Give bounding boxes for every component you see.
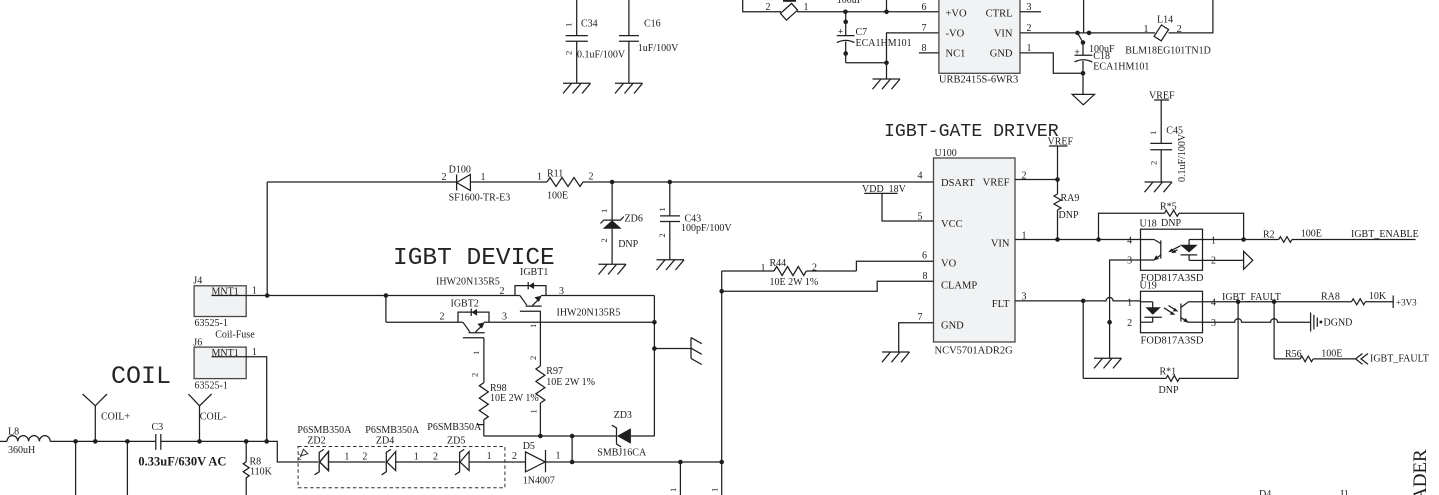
- ground (opto): [1094, 358, 1122, 368]
- svg-text:2: 2: [500, 286, 505, 297]
- wire (kink to C18): [1078, 33, 1084, 43]
- wire (R44 to VO pin6): [856, 261, 933, 271]
- resistor R98 10E 2W 1%: [479, 383, 538, 436]
- svg-text:BLM18EG101TN1D: BLM18EG101TN1D: [1125, 46, 1211, 57]
- resistor RA9 DNP (vertical): [1054, 180, 1079, 240]
- svg-text:Coil-Fuse: Coil-Fuse: [215, 330, 255, 341]
- svg-text:NC1: NC1: [946, 49, 966, 60]
- svg-text:VIN: VIN: [991, 239, 1010, 250]
- node (rail A / drop from D100): [265, 293, 270, 298]
- svg-text:P6SMB350A: P6SMB350A: [297, 425, 352, 436]
- svg-text:DNP: DNP: [1161, 218, 1181, 229]
- wire (U19 pin3 to DGND, with hops): [1202, 319, 1310, 322]
- svg-text:63525-1: 63525-1: [195, 381, 228, 392]
- wire (drop, cut): [721, 462, 723, 495]
- ground (C43): [657, 260, 685, 270]
- svg-text:2: 2: [812, 263, 817, 274]
- svg-text:4: 4: [1127, 236, 1132, 247]
- wire (drop, cut): [75, 441, 77, 495]
- svg-text:P6SMB350A: P6SMB350A: [427, 422, 482, 433]
- svg-text:6: 6: [922, 2, 927, 13]
- resistor RA8 10K: [1321, 291, 1393, 305]
- inductor L8 360uH: [0, 427, 50, 456]
- antenna COIL-: [188, 394, 226, 441]
- node (U19 pin2 / gnd riser): [1107, 320, 1112, 325]
- svg-text:GND: GND: [990, 49, 1013, 60]
- net VREF (above RA9): [1048, 137, 1074, 180]
- ground (ZD6): [599, 264, 627, 274]
- svg-text:R2: R2: [1263, 230, 1275, 241]
- resistor R*1 DNP: [1083, 301, 1238, 396]
- wire (riser cut at top): [1083, 0, 1085, 33]
- capacitor C34: [564, 0, 626, 83]
- LED (right side): [1188, 240, 1190, 246]
- node (COIL+): [93, 439, 98, 444]
- resistor R*5 DNP: [1099, 202, 1244, 240]
- svg-text:U18: U18: [1140, 219, 1157, 230]
- svg-text:1: 1: [1211, 236, 1216, 247]
- svg-text:CLAMP: CLAMP: [941, 281, 977, 292]
- svg-text:2: 2: [564, 51, 574, 55]
- svg-text:VCC: VCC: [941, 219, 963, 230]
- node (COIL-): [197, 439, 202, 444]
- transistor IGBT2 IHW20N135R5: [440, 299, 508, 338]
- svg-text:ECA1HM101: ECA1HM101: [1093, 62, 1149, 73]
- svg-text:1: 1: [252, 286, 257, 297]
- wire + pins (ZD2-ZD4): [329, 461, 386, 463]
- wire (to chassis): [654, 348, 691, 350]
- zener ZD4 P6SMB350A: [365, 425, 420, 475]
- chassis ground: [691, 338, 702, 365]
- inductor L14 (ferrite bead): [1125, 15, 1211, 57]
- svg-text:D5: D5: [523, 441, 535, 452]
- capacitor C18 (polarized): [1075, 40, 1150, 94]
- svg-text:6: 6: [922, 251, 927, 262]
- op-amp/driver U100 NCV5701ADR2G: [918, 148, 1027, 357]
- svg-text:VO: VO: [941, 259, 957, 270]
- svg-text:U19: U19: [1140, 281, 1157, 292]
- svg-text:1: 1: [481, 172, 486, 183]
- wire (drop, cut): [679, 462, 681, 495]
- pin 3 CTRL: [1020, 11, 1041, 13]
- svg-text:1: 1: [657, 207, 667, 211]
- svg-text:2: 2: [470, 373, 480, 377]
- capacitor C45 0.1uF/100V: [1148, 126, 1188, 183]
- svg-text:2: 2: [362, 452, 367, 463]
- svg-text:1: 1: [668, 488, 678, 492]
- node (C43): [668, 180, 673, 185]
- wire (rail B to IGBT2): [386, 321, 463, 323]
- svg-text:ECA1HM101: ECA1HM101: [856, 38, 912, 49]
- wire (driver rail D100/R11 to U100 DSART): [267, 181, 457, 183]
- wire (VIN pin2 to L14): [1020, 32, 1155, 34]
- svg-text:R*5: R*5: [1160, 202, 1177, 213]
- svg-text:1: 1: [1144, 24, 1149, 35]
- svg-text:C3: C3: [152, 422, 164, 433]
- resistor R56 100E: [1274, 349, 1356, 362]
- svg-text:R97: R97: [546, 366, 563, 377]
- svg-text:10E 2W 1%: 10E 2W 1%: [490, 393, 539, 404]
- node (R44/CLAMP): [719, 289, 724, 294]
- svg-text:2: 2: [657, 233, 667, 237]
- svg-text:NCV5701ADR2G: NCV5701ADR2G: [935, 346, 1014, 357]
- svg-text:110K: 110K: [250, 467, 273, 478]
- svg-text:2: 2: [599, 238, 609, 242]
- wire (gate rail A: J4 to IGBT1): [246, 295, 520, 297]
- svg-text:IGBT-GATE DRIVER: IGBT-GATE DRIVER: [884, 122, 1059, 142]
- svg-text:100uF: 100uF: [837, 0, 863, 6]
- svg-text:4: 4: [918, 171, 923, 182]
- svg-text:100pF/100V: 100pF/100V: [681, 223, 732, 234]
- svg-text:2: 2: [433, 452, 438, 463]
- svg-text:DNP: DNP: [1159, 385, 1179, 396]
- wire (IGBT2 pin3 to right rail): [484, 321, 655, 323]
- ground (C34): [563, 83, 591, 93]
- svg-text:FOD817A3SD: FOD817A3SD: [1141, 336, 1204, 347]
- wire (FLT to U19 pin1, with hop): [1015, 297, 1141, 301]
- svg-text:RA9: RA9: [1061, 193, 1080, 204]
- net VREF (above C45): [1149, 91, 1175, 144]
- svg-text:2: 2: [442, 172, 447, 183]
- node (R8): [244, 439, 249, 444]
- wire (riser to bottom rail): [571, 436, 573, 462]
- wire + pins (ZD4-ZD5): [396, 461, 459, 463]
- svg-text:1: 1: [414, 452, 419, 463]
- svg-text:D100: D100: [449, 165, 471, 176]
- svg-text:1: 1: [537, 172, 542, 183]
- svg-text:C18: C18: [1093, 51, 1110, 62]
- net VDD_18V: [862, 184, 918, 221]
- svg-text:ZD3: ZD3: [614, 410, 632, 421]
- svg-text:IGBT_FAULT: IGBT_FAULT: [1370, 354, 1429, 365]
- svg-text:1: 1: [344, 452, 349, 463]
- capacitor C16: [619, 0, 679, 83]
- svg-text:1: 1: [528, 324, 538, 328]
- svg-text:DSART: DSART: [941, 178, 975, 189]
- node (VIN riser): [1087, 31, 1092, 36]
- svg-text:R*1: R*1: [1160, 367, 1177, 378]
- svg-text:1: 1: [487, 451, 492, 462]
- wire (IGBT1 pin3 to right rail): [541, 295, 655, 297]
- svg-text:DGND: DGND: [1324, 318, 1353, 329]
- svg-text:1: 1: [1148, 131, 1158, 135]
- svg-text:COIL-: COIL-: [200, 412, 227, 423]
- svg-text:D4: D4: [1259, 489, 1271, 495]
- svg-text:3: 3: [559, 286, 564, 297]
- svg-text:IGBT1: IGBT1: [520, 267, 548, 278]
- svg-text:SF1600-TR-E3: SF1600-TR-E3: [449, 193, 511, 204]
- wire (rail jog down to diode chain): [267, 441, 318, 462]
- wire (CLAMP pin8 loop): [722, 271, 934, 291]
- svg-text:360uH: 360uH: [8, 445, 35, 456]
- svg-text:VIN: VIN: [994, 29, 1013, 40]
- wire (main rail): [50, 440, 156, 442]
- svg-text:3: 3: [502, 312, 507, 323]
- node (right rail/rail B): [652, 320, 657, 325]
- wire (VIN pin1 to U18 pin4): [1015, 239, 1141, 241]
- wire (R56 riser): [1273, 302, 1275, 359]
- svg-text:IGBT2: IGBT2: [451, 299, 479, 310]
- svg-text:1: 1: [564, 23, 574, 27]
- phototransistor (right side): [1180, 304, 1182, 322]
- light arrows: [1164, 308, 1173, 314]
- wire (fuse to URB pin6 +VO): [797, 11, 939, 13]
- node (R44 drop): [719, 460, 724, 465]
- svg-text:7: 7: [918, 312, 923, 323]
- svg-text:5: 5: [918, 212, 923, 223]
- zener ZD5 P6SMB350A: [447, 436, 469, 475]
- optocoupler U18 FOD817A3SD: [1127, 219, 1216, 285]
- wire + pins (ZD5-D5): [469, 461, 525, 463]
- svg-text:R11: R11: [547, 169, 563, 180]
- svg-text:0.1uF/100V: 0.1uF/100V: [1177, 133, 1188, 182]
- connector chevron IGBT_FAULT: [1356, 354, 1369, 365]
- svg-text:2: 2: [512, 451, 517, 462]
- svg-text:1: 1: [471, 351, 481, 355]
- wire (GND pin7 to ground): [899, 323, 934, 352]
- node (C7 top): [843, 10, 848, 15]
- svg-text:DNP: DNP: [618, 239, 638, 250]
- wire (IGBT1 emitter to R97): [539, 311, 541, 366]
- optocoupler U19 FOD817A3SD: [1127, 281, 1216, 347]
- dashed box (TVS chain): [298, 447, 505, 488]
- resistor R11 100E: [537, 169, 594, 202]
- antenna COIL+: [83, 394, 131, 441]
- svg-text:2: 2: [528, 356, 538, 360]
- wire (drop, cut): [126, 441, 128, 495]
- svg-text:J4: J4: [193, 276, 202, 287]
- pin 8 NC1: [919, 52, 939, 54]
- svg-text:P6SMB350A: P6SMB350A: [365, 425, 420, 436]
- node (FLT/R*1): [1081, 299, 1086, 304]
- svg-text:1: 1: [556, 451, 561, 462]
- svg-text:10E 2W 1%: 10E 2W 1%: [770, 277, 819, 288]
- resistor R2 100E: [1263, 229, 1416, 243]
- zener ZD6 DNP: [599, 182, 643, 264]
- svg-text:2: 2: [298, 452, 302, 462]
- svg-text:100E: 100E: [1321, 349, 1342, 360]
- wire (D5 to rail end): [546, 461, 722, 463]
- wire (drop to rail B): [385, 296, 387, 323]
- svg-text:GND: GND: [941, 321, 964, 332]
- wire (J6 pin1 down to rail): [246, 357, 267, 442]
- ground (C16): [615, 83, 643, 93]
- svg-text:URB2415S-6WR3: URB2415S-6WR3: [939, 75, 1018, 86]
- svg-text:2: 2: [589, 172, 594, 183]
- node: [73, 439, 78, 444]
- svg-text:4: 4: [1211, 298, 1216, 309]
- svg-text:7: 7: [922, 23, 927, 34]
- svg-text:1: 1: [529, 409, 539, 413]
- svg-text:IHW20N135R5: IHW20N135R5: [557, 308, 621, 319]
- svg-text:3: 3: [1211, 318, 1216, 329]
- wire (U18 pin1 to R2): [1203, 239, 1279, 241]
- svg-text:2: 2: [1149, 161, 1159, 165]
- svg-text:10E 2W 1%: 10E 2W 1%: [546, 377, 595, 388]
- phototransistor: [1141, 239, 1155, 241]
- svg-text:U100: U100: [935, 148, 957, 159]
- light arrows: [1171, 246, 1181, 251]
- svg-text:IGBT_ENABLE: IGBT_ENABLE: [1351, 229, 1419, 240]
- node (R56 riser): [1272, 300, 1277, 305]
- transistor IGBT1 IHW20N135R5: [436, 267, 620, 319]
- wire (long drop to bottom rail): [721, 291, 723, 462]
- svg-text:63525-1: 63525-1: [195, 318, 228, 329]
- svg-text:C7: C7: [856, 27, 868, 38]
- svg-text:-VO: -VO: [946, 29, 965, 40]
- svg-text:IHW20N135R5: IHW20N135R5: [436, 277, 500, 288]
- node (VIN/C18): [1075, 31, 1080, 36]
- LED (left side): [1141, 301, 1153, 303]
- capacitor C7 (polarized): [837, 12, 912, 63]
- svg-text:C16: C16: [644, 19, 661, 30]
- node (U18 pin1 / R2): [1241, 237, 1246, 242]
- node (R*1 riser): [1236, 300, 1241, 305]
- node (chassis branch): [652, 346, 657, 351]
- node (C7 gnd): [884, 61, 889, 66]
- resistor R97 10E 2W 1%: [529, 366, 596, 436]
- svg-text:COIL+: COIL+: [101, 412, 130, 423]
- svg-text:ADER: ADER: [1410, 449, 1431, 495]
- zener ZD3 SMBJ16CA: [597, 410, 647, 459]
- svg-text:10K: 10K: [1369, 291, 1387, 302]
- wire (-VO to C7/gnd): [887, 33, 939, 79]
- svg-text:C34: C34: [581, 19, 598, 30]
- svg-text:1uF/100V: 1uF/100V: [638, 43, 679, 54]
- svg-text:0.1uF/100V: 0.1uF/100V: [577, 50, 626, 61]
- svg-text:+3V3: +3V3: [1396, 298, 1417, 308]
- node (R97 bottom): [538, 434, 543, 439]
- svg-text:8: 8: [922, 43, 927, 54]
- node (D5 riser): [570, 434, 575, 439]
- svg-text:2: 2: [766, 2, 771, 13]
- svg-text:+VO: +VO: [946, 8, 968, 19]
- wire (top-left entry to fuse): [743, 0, 781, 12]
- ground (C45): [1145, 182, 1173, 192]
- svg-text:1N4007: 1N4007: [523, 476, 555, 487]
- wire (C7 bottom to gnd riser): [846, 62, 887, 64]
- svg-text:1: 1: [761, 263, 766, 274]
- zener ZD2 P6SMB350A: [297, 425, 352, 475]
- svg-text:ZD5: ZD5: [447, 436, 465, 447]
- node (top riser): [884, 10, 889, 15]
- svg-text:8: 8: [923, 271, 928, 282]
- svg-text:3: 3: [1027, 2, 1032, 13]
- svg-text:RA8: RA8: [1321, 292, 1340, 303]
- no-connect flag: [298, 449, 308, 461]
- resistor R8 110K: [243, 441, 272, 495]
- svg-text:R44: R44: [770, 258, 787, 269]
- svg-text:ZD2: ZD2: [307, 436, 325, 447]
- capacitor C43 100pF/100V: [657, 182, 733, 260]
- svg-text:DNP: DNP: [1059, 210, 1079, 221]
- svg-text:0.33uF/630V AC: 0.33uF/630V AC: [138, 455, 226, 469]
- diode D5 1N4007: [523, 441, 561, 487]
- wire (ZD3 rail): [484, 435, 617, 437]
- pin 5 VCC: [918, 220, 934, 222]
- svg-text:3: 3: [1127, 256, 1132, 267]
- power ground (C18): [1072, 94, 1094, 104]
- wire (IGBT2 emitter to R98): [483, 338, 485, 383]
- diode D100 SF1600-TR-E3: [442, 165, 511, 204]
- node (ZD6): [610, 180, 615, 185]
- svg-text:SMBJ16CA: SMBJ16CA: [597, 448, 647, 459]
- node (R*5 left): [1096, 237, 1101, 242]
- node: [570, 460, 575, 465]
- module U? URB2415S-6WR3: [919, 0, 1041, 86]
- ground (U100 GND): [882, 352, 910, 362]
- node (VREF/RA9): [1055, 177, 1060, 182]
- node: [125, 439, 130, 444]
- wire (VREF pin2): [1015, 179, 1058, 181]
- wire (rail drop to IGBT area): [266, 182, 268, 296]
- svg-text:ZD4: ZD4: [376, 436, 394, 447]
- wire (U19 pin4 IGBT_FAULT to RA8/+3V3): [1202, 301, 1351, 303]
- capacitor C3 0.33uF/630V AC: [138, 422, 226, 469]
- wire (R*1 riser): [1237, 302, 1239, 379]
- node (drop): [678, 460, 683, 465]
- svg-text:ZD6: ZD6: [625, 214, 643, 225]
- connector arrow (U18 pin2): [1203, 259, 1244, 261]
- svg-text:1: 1: [709, 488, 719, 492]
- ground DGND: [1311, 313, 1353, 332]
- wire (riser cut at top): [886, 0, 888, 12]
- svg-text:100E: 100E: [547, 191, 568, 202]
- svg-text:VREF: VREF: [983, 178, 1010, 189]
- connector J6 63525-1: [193, 338, 257, 392]
- svg-text:R56: R56: [1285, 349, 1302, 360]
- ground (C7/-VO): [873, 79, 901, 89]
- svg-text:1: 1: [599, 209, 609, 213]
- power +3V3: [1393, 296, 1417, 309]
- svg-text:2: 2: [440, 312, 445, 323]
- svg-text:L14: L14: [1157, 15, 1173, 26]
- wire (GND pin1 to C18 bottom): [1020, 53, 1083, 73]
- svg-text:COIL: COIL: [111, 362, 171, 391]
- node (rail A / IGBT2 branch): [384, 293, 389, 298]
- svg-text:J1: J1: [1340, 489, 1349, 495]
- resistor R44 10E 2W 1%: [722, 258, 857, 288]
- node (VIN/RA9): [1055, 237, 1060, 242]
- wire (U18 pin3 down to U19 pin2): [1110, 260, 1141, 358]
- svg-text:CTRL: CTRL: [986, 8, 1013, 19]
- wire (L14 pin2 up right riser): [1169, 0, 1213, 33]
- svg-text:FLT: FLT: [992, 299, 1010, 310]
- svg-text:1: 1: [1127, 298, 1132, 309]
- wire (right rail down): [653, 296, 655, 437]
- connector J4 63525-1 Coil-Fuse: [193, 276, 257, 341]
- svg-text:100E: 100E: [1301, 229, 1322, 240]
- node (J6 drop): [264, 439, 269, 444]
- fuse F? (diamond) pins 2-1: [766, 0, 809, 20]
- svg-text:2: 2: [1127, 318, 1132, 329]
